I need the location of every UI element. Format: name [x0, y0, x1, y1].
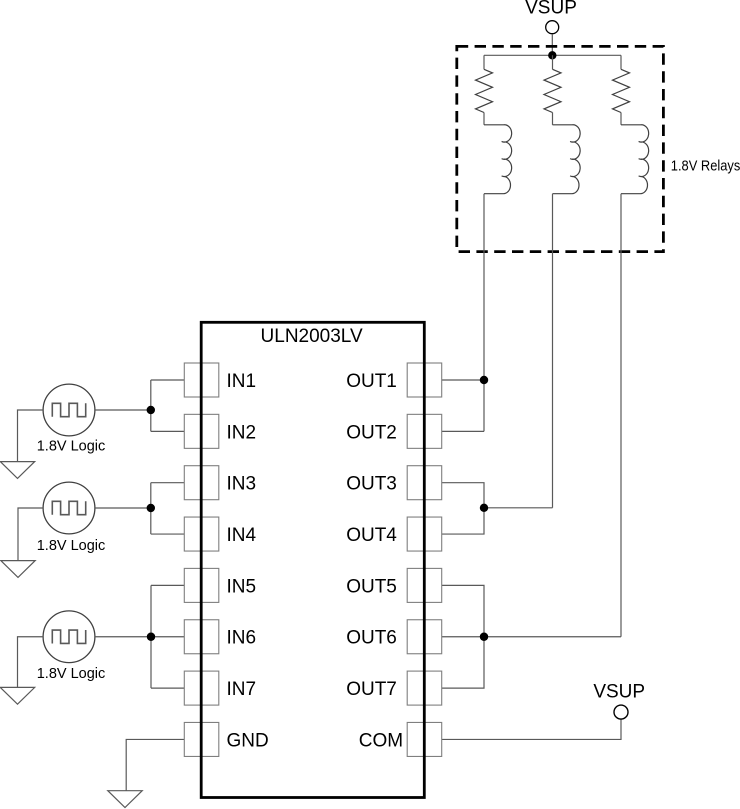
- junction V2 node: [147, 504, 155, 512]
- junction OUT5/OUT6/OUT7 node: [480, 633, 488, 641]
- wire relay branch 2 drop: [552, 194, 554, 508]
- inductor L1 (relay coil): [484, 125, 512, 194]
- pin box OUT7: [407, 671, 442, 705]
- wire OUT1: [442, 379, 484, 381]
- wire to IN3: [151, 482, 185, 484]
- wire VSUP bus: [484, 54, 621, 56]
- wire R1 to L1: [483, 113, 485, 125]
- wire to IN4: [151, 533, 185, 535]
- svg-text:IN6: IN6: [227, 628, 257, 649]
- wire OUT5/6/7 node to relay 3: [484, 636, 621, 638]
- svg-text:OUT1: OUT1: [346, 371, 397, 392]
- wire V2 output: [95, 507, 151, 509]
- ground symbol G4 (GND pin): [108, 791, 142, 808]
- wire R3 to L3: [620, 113, 622, 125]
- junction bus/VSUP: [548, 51, 556, 59]
- wire relay branch 1 top: [483, 55, 485, 69]
- pin box IN4: [184, 517, 219, 551]
- junction OUT3/OUT4 node: [480, 504, 488, 512]
- voltage source V2 (1.8V Logic): [43, 482, 95, 534]
- wire relay branch 1 drop to OUT1/OUT2: [483, 194, 485, 432]
- wire to IN7: [151, 687, 184, 689]
- pin box IN2: [184, 414, 219, 448]
- voltage source V1 (1.8V Logic): [43, 384, 95, 436]
- svg-text:IN3: IN3: [227, 474, 257, 495]
- wire COM to VSUP terminal: [442, 719, 621, 739]
- svg-text:OUT6: OUT6: [346, 628, 397, 649]
- wire OUT2: [442, 430, 484, 432]
- svg-text:IN4: IN4: [227, 525, 257, 546]
- pin box IN7: [184, 671, 219, 705]
- ground symbol G3: [0, 687, 34, 704]
- svg-text:OUT5: OUT5: [346, 576, 397, 597]
- pin box OUT6: [407, 620, 442, 654]
- wire to IN2: [151, 430, 185, 432]
- wire V1 split IN1/IN2: [150, 380, 152, 431]
- pin box OUT3: [407, 466, 442, 500]
- wire OUT3/OUT4 node to relay 2: [484, 507, 553, 509]
- wire V1 to ground: [18, 410, 44, 462]
- wire R2 to L2: [552, 113, 554, 125]
- pin box OUT4: [407, 517, 442, 551]
- junction V1 node: [147, 406, 155, 414]
- wire V3 to ground: [18, 637, 44, 688]
- svg-text:GND: GND: [227, 730, 269, 751]
- relay enclosure box (dashed): [457, 46, 664, 251]
- wire to IN1: [151, 379, 185, 381]
- svg-text:1.8V Logic: 1.8V Logic: [37, 666, 106, 682]
- wire V3 output to IN6: [95, 636, 184, 638]
- terminal VSUP (COM): [614, 705, 628, 719]
- wire V1 output: [95, 409, 151, 411]
- svg-text:VSUP: VSUP: [525, 0, 577, 18]
- svg-text:OUT7: OUT7: [346, 679, 397, 700]
- pin box IN1: [184, 363, 219, 397]
- resistor R2 (relay coil series): [544, 69, 561, 112]
- wire to IN5: [151, 584, 184, 586]
- resistor R1 (relay coil series): [476, 69, 493, 112]
- wire relay branch 3 drop: [620, 194, 622, 637]
- svg-text:OUT3: OUT3: [346, 474, 397, 495]
- wire VSUP stem: [551, 34, 553, 55]
- wire relay branch 2 top: [552, 55, 554, 69]
- pin box IN5: [184, 568, 219, 602]
- resistor R3 (relay coil series): [613, 69, 630, 112]
- wire OUT6: [442, 636, 484, 638]
- ground symbol G1: [0, 462, 34, 479]
- pin box COM: [407, 722, 442, 756]
- wire OUT7: [442, 637, 484, 688]
- svg-text:ULN2003LV: ULN2003LV: [261, 326, 363, 347]
- wire relay branch 3 top: [620, 55, 622, 69]
- pin box IN3: [184, 466, 219, 500]
- pin box OUT1: [407, 363, 442, 397]
- pin box OUT2: [407, 414, 442, 448]
- svg-text:1.8V Relays: 1.8V Relays: [671, 158, 740, 175]
- svg-text:OUT2: OUT2: [346, 422, 397, 443]
- wire V3 split IN5/IN7: [150, 585, 152, 688]
- junction OUT1/OUT2 node: [480, 376, 488, 384]
- wire V2 to ground: [18, 508, 43, 561]
- svg-text:IN1: IN1: [227, 371, 257, 392]
- svg-text:IN2: IN2: [227, 422, 257, 443]
- svg-text:IN7: IN7: [227, 679, 257, 700]
- pin box GND: [184, 722, 219, 756]
- voltage source V3 (1.8V Logic): [43, 611, 95, 663]
- svg-text:VSUP: VSUP: [593, 682, 645, 703]
- wire V2 split IN3/IN4: [150, 483, 152, 534]
- wire OUT3: [442, 483, 484, 508]
- terminal VSUP (top): [546, 21, 559, 34]
- inductor L2 (relay coil): [553, 125, 581, 194]
- ground symbol G2: [1, 561, 35, 578]
- pin box IN6: [184, 620, 219, 654]
- svg-text:1.8V Logic: 1.8V Logic: [37, 439, 106, 455]
- svg-text:IN5: IN5: [227, 576, 257, 597]
- junction V3 node: [147, 633, 155, 641]
- wire GND pin to ground: [126, 739, 184, 790]
- svg-text:1.8V Logic: 1.8V Logic: [37, 538, 106, 554]
- svg-text:OUT4: OUT4: [346, 525, 397, 546]
- svg-text:COM: COM: [359, 730, 403, 751]
- op-amp U1 ULN2003LV body outline: [201, 322, 424, 797]
- wire OUT4: [442, 508, 484, 534]
- pin box OUT5: [407, 568, 442, 602]
- inductor L3 (relay coil): [621, 125, 649, 194]
- wire OUT5: [442, 585, 484, 636]
